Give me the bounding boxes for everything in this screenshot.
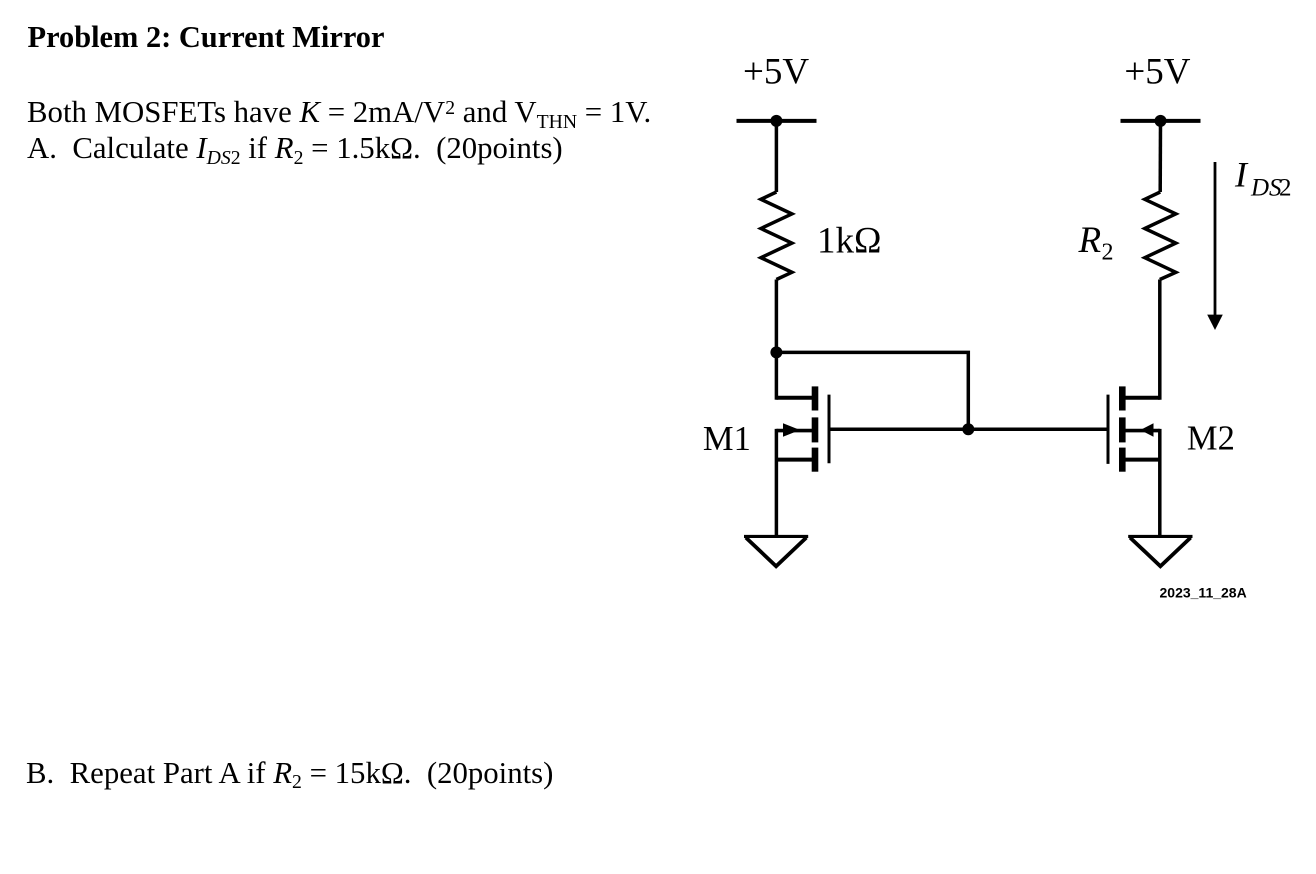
part B line [26, 758, 553, 789]
transistor M1 body stub [776, 429, 812, 433]
transistor M2 channel bars [1119, 386, 1126, 471]
ground (left) bar [744, 535, 808, 538]
transistor M1 gate line [828, 395, 831, 464]
wire: resistor R2 to M2 drain [1158, 280, 1162, 400]
wire: M2 source/body down to ground [1158, 429, 1162, 536]
left supply junction dot [770, 115, 782, 127]
transistor M2 drain stub [1125, 396, 1159, 400]
resistor R1 1kOhm zigzag [761, 192, 792, 280]
svg-text:I: I [1234, 155, 1249, 195]
title line [28, 22, 385, 52]
transistor M1 source stub [776, 458, 812, 462]
svg-text:+5V: +5V [743, 52, 809, 93]
right supply junction dot [1155, 115, 1167, 127]
transistor M2 gate line [1107, 395, 1110, 464]
transistor M2 source stub [1125, 458, 1159, 462]
svg-text:DS: DS [1250, 175, 1282, 202]
svg-text:1kΩ: 1kΩ [817, 221, 882, 262]
svg-text:2023_11_28A: 2023_11_28A [1160, 585, 1247, 601]
svg-text:+5V: +5V [1124, 52, 1190, 93]
wire: right supply to resistor R2 [1158, 121, 1162, 192]
svg-text:2: 2 [1279, 175, 1292, 202]
wire: left supply to resistor R1 [775, 121, 779, 192]
transistor M2 body arrow [1140, 423, 1153, 436]
node A (drain/gate tie of M1) dot [770, 346, 782, 358]
svg-text:R: R [1078, 220, 1102, 261]
body line 2 (part A) [27, 133, 563, 164]
junction dot on gate bus [962, 423, 974, 435]
wire: node A feedback loop to gate bus [776, 352, 968, 429]
transistor M1 channel bars [812, 386, 819, 471]
wire: resistor R1 to drain node of M1 [775, 280, 779, 353]
ground (right) bar [1128, 535, 1192, 538]
resistor R2 zigzag [1145, 192, 1176, 280]
svg-text:M2: M2 [1187, 420, 1235, 458]
svg-text:M1: M1 [703, 420, 751, 458]
wire: node A down to M1 drain [775, 352, 779, 399]
transistor M1 drain stub [776, 396, 812, 400]
ground (left) V [746, 538, 806, 567]
ground (right) V [1130, 538, 1191, 567]
current arrow I_DS2 [1214, 162, 1217, 317]
left +5V supply bar [737, 119, 817, 123]
wire: M1 source/body down to ground [775, 429, 779, 536]
svg-text:2: 2 [1102, 240, 1114, 266]
transistor M2 body stub [1125, 429, 1159, 433]
wire: gate bus M1 gate to M2 gate [829, 427, 1108, 431]
transistor M1 body arrow [783, 423, 800, 436]
right +5V supply bar [1121, 119, 1201, 123]
body line 1 [27, 97, 651, 128]
